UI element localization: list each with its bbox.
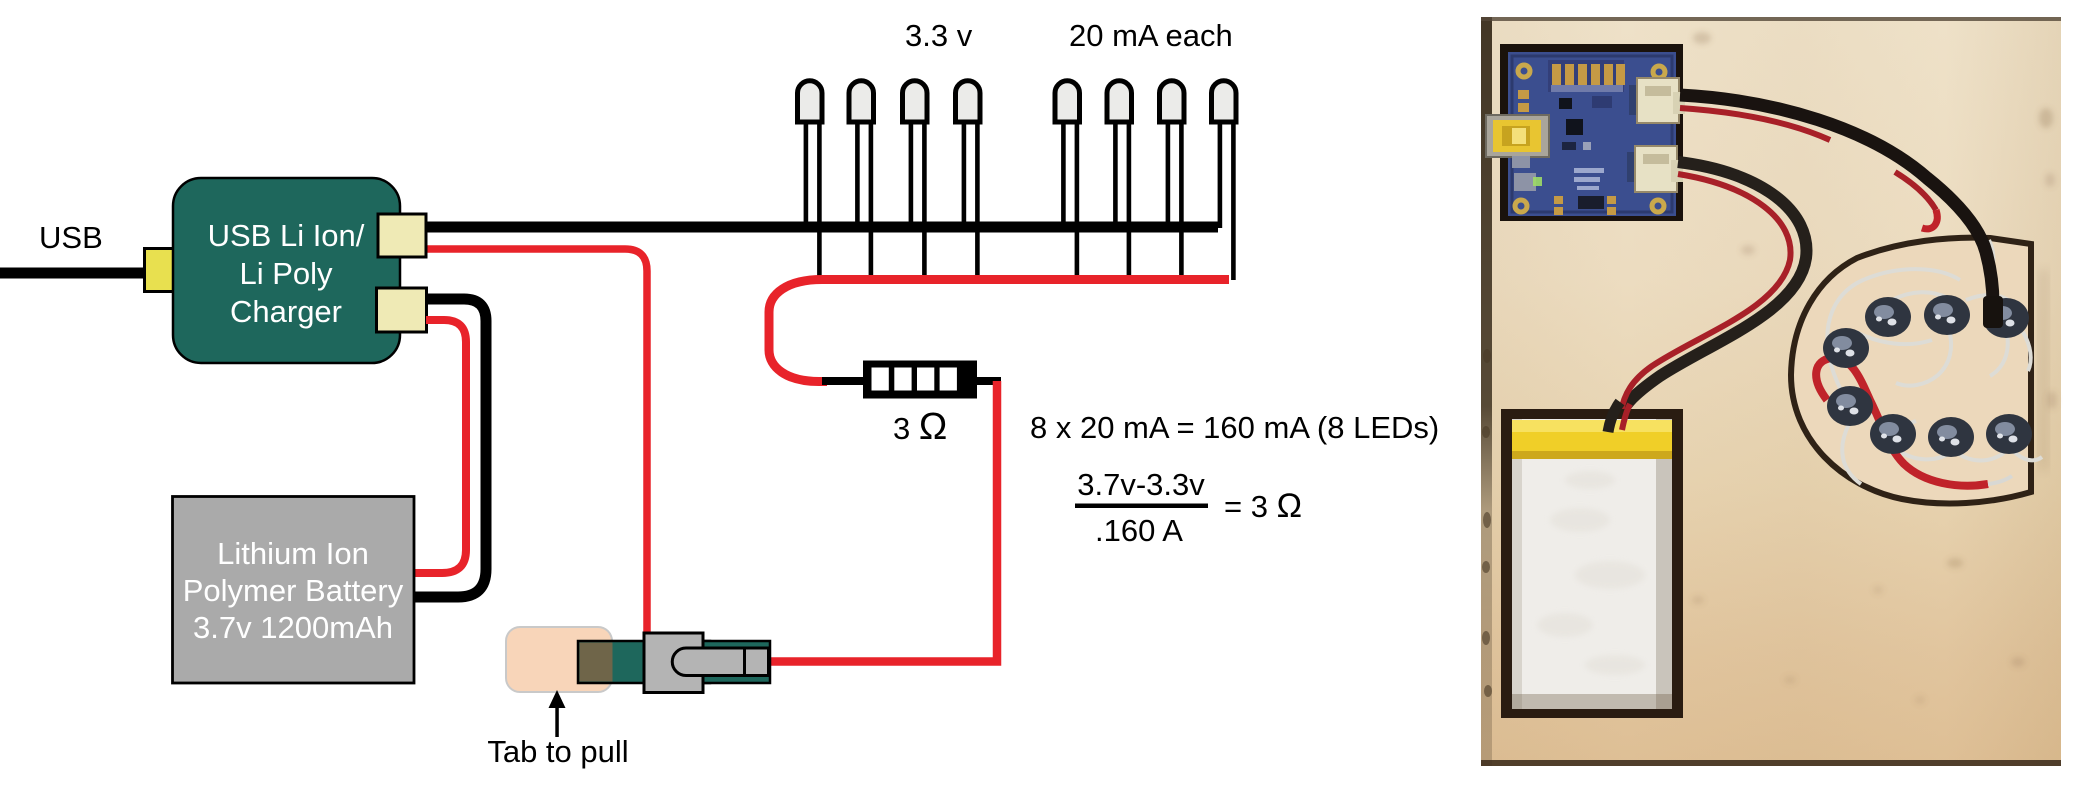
photo: LED metallic highlights <box>1832 303 2015 439</box>
switch S1 gray tongue <box>672 648 768 676</box>
svg-text:Li Poly: Li Poly <box>239 256 333 291</box>
photo: SOT23 transistor <box>1559 98 1572 109</box>
svg-text:20 mA each: 20 mA each <box>1069 18 1233 53</box>
photo: PCB pocket <box>1500 44 1683 221</box>
formula fraction bar <box>1075 504 1208 509</box>
photo: silkscreen markings <box>1514 120 1604 190</box>
LED D2 <box>849 81 874 280</box>
svg-text:Polymer Battery: Polymer Battery <box>183 573 404 608</box>
LED D7 <box>1160 81 1185 280</box>
wire: red from bottom pad to battery <box>414 320 466 573</box>
USB connector pad J1 (yellow) <box>145 249 199 292</box>
charger pad bottom-right (pale yellow) <box>377 288 427 332</box>
photo: battery wire stubs entering pocket <box>1608 402 1620 432</box>
pull-tab (peach) <box>506 627 612 692</box>
arrow to tab <box>555 705 559 737</box>
LED D8 <box>1212 81 1237 280</box>
photo: battery pocket <box>1501 409 1683 718</box>
photo: small gold pads left <box>1518 90 1616 215</box>
resistor R1 lead left <box>822 377 866 385</box>
photo: red jumper wire in pocket <box>1816 358 1988 486</box>
LED D3 <box>903 81 928 280</box>
photo: battery shading <box>1656 419 1672 709</box>
photo: mini-USB connector <box>1486 115 1549 157</box>
photo: PCB mounting holes <box>1515 65 1665 212</box>
svg-text:Lithium Ion: Lithium Ion <box>217 536 369 571</box>
switch S1 gray block <box>644 633 703 693</box>
LED D4 <box>956 81 981 280</box>
charger U1 body: USB Li Ion / Li Poly Charger <box>173 178 400 363</box>
photo: mini-USB pins below <box>1512 156 1530 168</box>
LED D6 <box>1107 81 1132 280</box>
charger pad top-right (pale yellow) <box>378 214 426 257</box>
photo: wire bundle charger to battery (red tracer) <box>1621 174 1791 412</box>
photo: black wire end in pocket <box>1983 296 2003 328</box>
photo: center IC <box>1566 119 1583 135</box>
wire: black anode bus (over legs) <box>426 222 1218 233</box>
photo: battery bottom shadow <box>1512 694 1672 709</box>
svg-text:.160 A: .160 A <box>1095 513 1183 548</box>
LED D5 <box>1055 81 1080 280</box>
svg-text:USB: USB <box>39 220 103 255</box>
svg-text:3.7v 1200mAh: 3.7v 1200mAh <box>193 610 393 645</box>
photo: LiPo battery body <box>1512 419 1672 709</box>
wire: red cathode bus with C-bend into resistor <box>769 280 1229 382</box>
photo: silver leg wires in pocket <box>1827 240 2042 484</box>
wire: black output bus from charger to LED anodes <box>400 222 1218 233</box>
photo: wire bundle charger to LEDs (black) <box>1680 95 1993 304</box>
wire: black from bottom pad to battery <box>414 299 486 597</box>
photo: pocket right shadow <box>2038 270 2049 470</box>
photo: wire bundle charger to LEDs (red tracer) <box>1680 108 1830 140</box>
photo: bottom middle component <box>1578 196 1604 209</box>
photo: PCB gold pad header <box>1548 60 1624 92</box>
photo: wood board background <box>1481 17 2061 766</box>
svg-text:= 3 Ω: = 3 Ω <box>1224 487 1302 525</box>
svg-text:USB Li Ion/: USB Li Ion/ <box>208 218 365 253</box>
switch S1 teal body <box>578 641 710 683</box>
svg-text:3.7v-3.3v: 3.7v-3.3v <box>1077 467 1205 502</box>
photo: small passives <box>1562 142 1576 150</box>
switch S1 tongue divider <box>743 648 746 676</box>
wire USB input (black) <box>0 268 150 279</box>
photo: wire bundle charger to battery (black) <box>1615 162 1806 426</box>
photo: JST header bottom <box>1627 152 1637 182</box>
svg-text:Tab to pull: Tab to pull <box>487 734 628 769</box>
wire: red from charger top pad down to switch block <box>426 249 647 640</box>
resistor R1 lead right <box>977 377 1001 385</box>
svg-text:3.3 v: 3.3 v <box>905 18 973 53</box>
photo: red hook at pocket entry <box>1922 210 1937 229</box>
photo: red jumper bare tip <box>1988 476 2012 484</box>
svg-text:3 Ω: 3 Ω <box>893 406 947 448</box>
photo: JST header top <box>1629 85 1639 115</box>
photo: wood knots and smudges <box>1692 32 2057 704</box>
wire: red from resistor down and left to switch <box>769 381 997 662</box>
photo: battery yellow tape <box>1512 420 1672 458</box>
photo: board edge shading <box>0 0 1 1</box>
svg-text:Charger: Charger <box>230 294 342 329</box>
photo: LED pocket (routed circle) <box>1791 238 2031 504</box>
resistor R1 body <box>863 361 977 399</box>
photo: blue PCB <box>1508 52 1676 216</box>
photo: bottom-left silver part <box>1514 173 1536 191</box>
LED D1 <box>798 81 823 280</box>
svg-text:8 x 20 mA = 160 mA (8 LEDs): 8 x 20 mA = 160 mA (8 LEDs) <box>1030 410 1439 445</box>
photo: LEDs inside pocket (rear view) <box>1823 295 2032 457</box>
switch S1 teal right piece <box>703 641 770 683</box>
switch S1 tab overlap (olive) <box>580 643 613 682</box>
battery BT1 body <box>173 497 415 684</box>
